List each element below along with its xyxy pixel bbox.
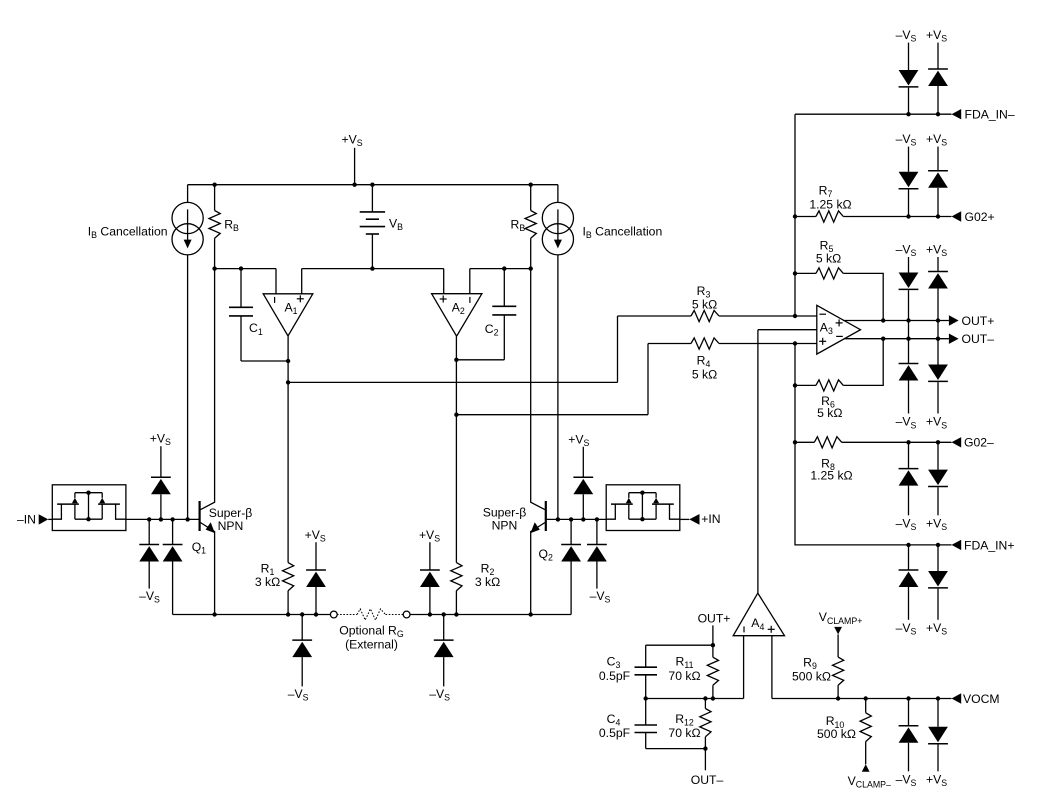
diode clamp to -VS	[908, 545, 910, 570]
diode clamp to +VS	[937, 545, 939, 571]
diode clamp to -VS	[908, 147, 910, 172]
diode clamp to +VS	[937, 339, 939, 365]
diode clamp to +VS	[937, 147, 939, 171]
wire A3 inverting input	[795, 315, 817, 317]
svg-text:G02–: G02–	[964, 435, 994, 449]
diode emitter clamp to +VS (left)	[314, 612, 318, 616]
diode emitter clamp to +VS (right)	[428, 612, 432, 616]
svg-text:Super-β: Super-β	[209, 506, 253, 520]
wire top feedback node	[646, 644, 713, 646]
terminal RG left	[330, 611, 337, 618]
svg-text:FDA_IN+: FDA_IN+	[964, 538, 1014, 552]
input protection cell (left)	[52, 485, 126, 531]
wire clamp columns OUT+ to OUT-	[908, 321, 910, 339]
diode clamp to -VS	[908, 442, 910, 468]
op-amp A2	[432, 294, 482, 337]
resistor RB (left)	[212, 183, 216, 187]
svg-text:OUT+: OUT+	[962, 314, 995, 328]
wire FDA_IN- bus to A3 inverting input	[794, 114, 796, 316]
diode clamp to -VS	[908, 257, 910, 273]
junction mid feedback node	[644, 696, 648, 700]
svg-text:1.25 kΩ: 1.25 kΩ	[810, 469, 852, 483]
wire emitter node left	[173, 614, 331, 616]
resistor R4 5k	[691, 338, 719, 349]
svg-text:IB Cancellation: IB Cancellation	[583, 224, 663, 240]
resistor R6 5k	[795, 384, 816, 386]
wire rail to A2 inverting input	[470, 268, 531, 270]
svg-text:5 kΩ: 5 kΩ	[692, 367, 717, 381]
svg-text:5 kΩ: 5 kΩ	[816, 252, 841, 266]
resistor R5 5k	[795, 272, 816, 274]
svg-text:Super-β: Super-β	[483, 506, 527, 520]
wire emitter node right	[410, 614, 571, 616]
pin VOCM	[772, 698, 952, 700]
diode base-emitter clamp (left)	[170, 517, 174, 521]
svg-text:NPN: NPN	[218, 519, 244, 533]
wire A4 inverting input	[743, 636, 745, 699]
diode clamp to -VS	[908, 43, 910, 70]
diode clamp to +VS	[937, 43, 939, 69]
terminal RG right	[403, 611, 410, 618]
wire rail to A1 inverting input	[215, 268, 276, 270]
svg-text:3 kΩ: 3 kΩ	[255, 575, 280, 589]
resistor RB (right)	[529, 183, 533, 187]
wire IB source to base node (left)	[187, 255, 189, 520]
resistor R12 70k	[704, 699, 706, 709]
pin OUT+	[843, 320, 949, 322]
pin G02-	[842, 441, 952, 443]
wire A1 output	[287, 336, 289, 563]
svg-text:70 kΩ: 70 kΩ	[668, 669, 700, 683]
diode clamp to -VS	[908, 339, 910, 364]
pin FDA_IN+	[952, 540, 962, 550]
transistor Q2 Super-beta NPN	[545, 501, 547, 531]
diode clamp to -VS	[908, 699, 910, 726]
resistor R2 3k	[451, 563, 462, 591]
wire bottom feedback node	[646, 748, 706, 750]
svg-text:VOCM: VOCM	[963, 692, 1000, 706]
svg-text:G02+: G02+	[965, 210, 995, 224]
pin OUT-	[844, 338, 949, 340]
diode clamp to +VS	[937, 699, 939, 727]
diode clamp to +VS	[937, 442, 939, 469]
diode base clamp to +VS (right)	[581, 517, 585, 521]
svg-text:5 kΩ: 5 kΩ	[817, 406, 842, 420]
svg-text:500 kΩ: 500 kΩ	[817, 727, 856, 741]
battery VB	[371, 185, 373, 212]
op-amp A4	[733, 593, 784, 636]
svg-text:NPN: NPN	[492, 519, 518, 533]
wire IB source to base node (right)	[557, 255, 559, 520]
resistor R10 500k	[864, 696, 868, 700]
wire base node left	[126, 518, 200, 520]
current source IB Cancellation (right)	[557, 185, 559, 203]
svg-text:+IN: +IN	[701, 512, 720, 526]
svg-text:70 kΩ: 70 kΩ	[668, 726, 700, 740]
wire top rail	[188, 184, 558, 186]
input +IN	[680, 518, 690, 520]
svg-text:5 kΩ: 5 kΩ	[692, 298, 717, 312]
diode base clamp to -VS (left)	[147, 517, 151, 521]
svg-text:OUT–: OUT–	[962, 332, 995, 346]
svg-text:(External): (External)	[345, 638, 398, 652]
diode base clamp to +VS (left)	[159, 517, 163, 521]
svg-text:FDA_IN–: FDA_IN–	[965, 108, 1015, 122]
svg-text:0.5pF: 0.5pF	[599, 669, 630, 683]
input protection cell (right)	[606, 485, 680, 531]
node VCLAMP-	[862, 764, 870, 772]
capacitor C4 0.5pF	[645, 699, 647, 726]
pin FDA_IN-	[795, 113, 952, 115]
pin G02+	[843, 216, 951, 218]
diode emitter clamp to -VS (left)	[300, 612, 304, 616]
wire A3 non-inverting input	[795, 343, 817, 345]
capacitor C1	[239, 266, 243, 270]
resistor R8 1.25k	[795, 441, 814, 443]
transistor Q1 Super-beta NPN	[199, 501, 201, 531]
svg-text:–IN: –IN	[17, 513, 36, 527]
svg-text:0.5pF: 0.5pF	[599, 726, 630, 740]
wire A1 output to R3	[288, 381, 617, 383]
wire A4 output to A3 vocm pin	[758, 329, 817, 331]
op-amp A3 fully differential	[817, 305, 861, 354]
wire VB to A1/A2 non-inverting inputs	[302, 268, 444, 270]
optional RG external resistor	[337, 614, 357, 616]
op-amp A1	[263, 294, 313, 336]
svg-text:3 kΩ: 3 kΩ	[475, 575, 500, 589]
wire A4 non-inverting input	[771, 636, 773, 699]
svg-text:1.25 kΩ: 1.25 kΩ	[809, 198, 851, 212]
resistor R7 1.25k	[795, 216, 816, 218]
svg-text:500 kΩ: 500 kΩ	[792, 669, 831, 683]
diode clamp to +VS	[937, 257, 939, 272]
resistor R11 70k	[712, 645, 714, 657]
wire A2 output to R4	[456, 414, 648, 416]
capacitor C3 0.5pF	[645, 645, 647, 667]
svg-text:OUT–: OUT–	[691, 773, 724, 787]
junction top rail / battery	[370, 183, 374, 187]
diode base clamp to -VS (right)	[595, 517, 599, 521]
node OUT- sense	[704, 749, 706, 771]
current source IB Cancellation (left)	[187, 185, 189, 203]
wire base node right	[546, 518, 607, 520]
wire A2 output	[455, 336, 457, 562]
resistor R9 500k	[833, 657, 844, 685]
svg-text:IB Cancellation: IB Cancellation	[88, 224, 168, 240]
wire A3 non-inverting bus to FDA_IN+	[795, 344, 952, 545]
resistor R3 5k	[691, 310, 719, 321]
capacitor C2	[502, 266, 506, 270]
diode emitter clamp to -VS (right)	[442, 612, 446, 616]
resistor R1 3k	[283, 563, 294, 591]
diode base-emitter clamp (right)	[569, 517, 573, 521]
svg-text:OUT+: OUT+	[698, 611, 731, 625]
